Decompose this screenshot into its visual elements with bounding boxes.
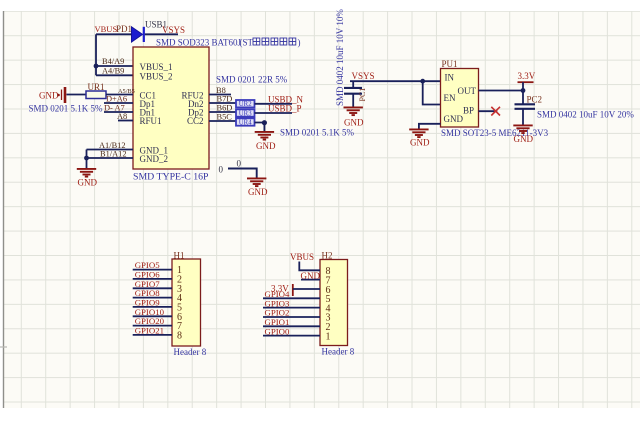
wire Dn1 xyxy=(104,111,133,113)
svg-text:UR1: UR1 xyxy=(88,82,105,92)
wire pin2 xyxy=(263,325,320,327)
svg-text:Header 8: Header 8 xyxy=(174,347,207,357)
svg-text:SMD 0201 5.1K 5%: SMD 0201 5.1K 5% xyxy=(29,104,104,114)
svg-text:GND: GND xyxy=(39,91,59,101)
wire GND drop xyxy=(86,150,88,169)
wire pin4 xyxy=(263,307,320,309)
resistor UR4 xyxy=(236,118,255,125)
svg-text:PC1: PC1 xyxy=(358,88,367,102)
wire shield to gnd xyxy=(228,169,257,178)
svg-text:SMD 0201 5.1K 5%: SMD 0201 5.1K 5% xyxy=(280,128,355,138)
svg-text:UR4: UR4 xyxy=(239,119,252,126)
wire Dp1 xyxy=(104,102,133,104)
junction EN branch xyxy=(420,79,425,84)
ground symbol PC2 xyxy=(513,125,532,133)
wire pin5 xyxy=(263,297,320,299)
wire diode to VSYS xyxy=(145,33,178,35)
wire B6 to UR3 xyxy=(209,111,236,113)
svg-text:PD1: PD1 xyxy=(116,24,132,34)
svg-text:GND: GND xyxy=(344,118,364,128)
svg-text:CC2: CC2 xyxy=(187,116,204,126)
H1 net labels xyxy=(135,260,165,335)
svg-text:VSYS: VSYS xyxy=(162,25,185,35)
resistor UR2 xyxy=(236,100,255,107)
svg-text:8: 8 xyxy=(177,330,182,341)
svg-text:0: 0 xyxy=(219,165,224,175)
wire OUT to 3.3V xyxy=(479,90,524,92)
svg-text:RFU1: RFU1 xyxy=(140,116,162,126)
svg-text:BP: BP xyxy=(463,106,474,116)
regulator PU1 body xyxy=(441,69,479,128)
svg-text:PC2: PC2 xyxy=(527,95,543,105)
wire to VBUS_1 xyxy=(96,65,133,67)
capacitor PC1 xyxy=(344,81,362,106)
H1 pin wires xyxy=(133,270,172,335)
wire pin3 xyxy=(263,316,320,318)
wire UR4 to gnd xyxy=(255,123,265,132)
svg-text:GND_2: GND_2 xyxy=(140,154,169,164)
wire BP stub xyxy=(479,110,498,112)
wire pin1 xyxy=(263,335,320,337)
header H1 body xyxy=(172,259,201,346)
no-ERC marker BP xyxy=(491,107,500,116)
svg-text:B4/A9: B4/A9 xyxy=(102,57,124,66)
wire UR2 to USBD_N xyxy=(255,103,293,105)
wire B8 stub xyxy=(209,94,231,96)
H1 pin numbers xyxy=(177,265,182,341)
wire GND_2 xyxy=(87,157,134,159)
svg-text:EN: EN xyxy=(444,93,456,103)
wire to VBUS_2 xyxy=(96,74,133,76)
comment SOD323 xyxy=(156,38,301,48)
wire GND pin xyxy=(419,124,441,129)
junction VBUS xyxy=(94,64,99,69)
resistor UR3 xyxy=(236,109,255,116)
svg-text:H2: H2 xyxy=(322,251,333,261)
power port GND left xyxy=(39,87,65,103)
svg-text:GPIO21: GPIO21 xyxy=(135,325,164,335)
ground symbol left xyxy=(77,169,96,177)
ground symbol shield xyxy=(247,178,266,186)
wire EN branch xyxy=(423,81,441,104)
svg-text:A4/B9: A4/B9 xyxy=(102,67,124,76)
svg-text:VSYS: VSYS xyxy=(352,71,375,81)
wire UR3 to USBD_P xyxy=(255,112,293,114)
svg-text:PU1: PU1 xyxy=(442,59,458,69)
capacitor PC2 xyxy=(515,91,536,125)
svg-text:B1/A12: B1/A12 xyxy=(100,150,127,159)
junction UR4 xyxy=(262,120,267,125)
svg-text:B7D: B7D xyxy=(217,95,233,104)
wire UR1 to CC1 xyxy=(106,94,133,96)
svg-text:VBUS: VBUS xyxy=(95,24,118,34)
wire pin7 xyxy=(301,279,320,281)
svg-text:GND: GND xyxy=(410,138,430,148)
power port 3.3V xyxy=(518,71,536,91)
svg-text:B6D: B6D xyxy=(217,104,233,113)
svg-text:GND: GND xyxy=(514,134,534,144)
svg-text:GND: GND xyxy=(256,141,276,151)
header H2 body xyxy=(320,260,348,346)
wire VBUS vertical xyxy=(95,34,97,75)
svg-text:VBUS_2: VBUS_2 xyxy=(140,71,173,81)
svg-text:UR2: UR2 xyxy=(239,101,252,108)
resistor UR1 xyxy=(86,91,106,99)
svg-text:D+A6: D+A6 xyxy=(106,95,127,104)
svg-text:USBD_P: USBD_P xyxy=(268,104,302,114)
svg-text:(ST: (ST xyxy=(240,38,254,48)
svg-text:GND: GND xyxy=(78,178,98,188)
svg-text:GND: GND xyxy=(248,187,268,197)
junction OUT xyxy=(521,88,526,93)
svg-text:VBUS_1: VBUS_1 xyxy=(140,62,173,72)
wire B7 to UR2 xyxy=(209,102,236,104)
svg-text:B5C: B5C xyxy=(217,113,233,122)
svg-text:OUT: OUT xyxy=(458,86,477,96)
diode PD1 xyxy=(132,27,144,42)
wire GND_1 xyxy=(87,149,134,151)
svg-text:VBUS: VBUS xyxy=(290,252,314,262)
svg-text:SMD TYPE-C 16P: SMD TYPE-C 16P xyxy=(133,172,209,183)
svg-text:Header 8: Header 8 xyxy=(322,347,355,357)
wire VBUS to diode xyxy=(96,33,132,35)
wire B5 to UR4 xyxy=(209,120,236,122)
wire VSYS to IN xyxy=(350,80,441,82)
svg-text:SMD SOD323 BAT60J: SMD SOD323 BAT60J xyxy=(156,38,242,48)
svg-text:): ) xyxy=(298,38,301,48)
svg-text:A8: A8 xyxy=(117,112,127,121)
ground symbol UR4 xyxy=(255,132,274,140)
ground symbol PU1 xyxy=(409,129,428,137)
svg-text:0: 0 xyxy=(237,159,242,169)
wire pin6 xyxy=(293,288,320,290)
svg-text:H1: H1 xyxy=(174,251,185,261)
junction GND_2 xyxy=(84,156,89,161)
svg-text:3.3V: 3.3V xyxy=(518,71,536,81)
wire VBUS pin8 xyxy=(299,262,320,271)
wire GND to UR1 xyxy=(67,94,87,96)
svg-text:SMD 0402 10uF 10V 20%: SMD 0402 10uF 10V 20% xyxy=(537,110,634,120)
svg-text:IN: IN xyxy=(445,73,455,83)
svg-text:UR3: UR3 xyxy=(239,110,252,117)
svg-text:SMD 0201 22R 5%: SMD 0201 22R 5% xyxy=(216,75,288,85)
wire RFU1 stub xyxy=(118,120,133,122)
H2 pin numbers xyxy=(326,266,331,342)
svg-text:1: 1 xyxy=(326,331,331,342)
ground symbol PC1 xyxy=(344,107,363,115)
connector USB1 body xyxy=(133,47,209,169)
svg-text:SMD 0402 10uF 10V 10%: SMD 0402 10uF 10V 10% xyxy=(335,9,345,106)
svg-text:GND: GND xyxy=(444,114,464,124)
